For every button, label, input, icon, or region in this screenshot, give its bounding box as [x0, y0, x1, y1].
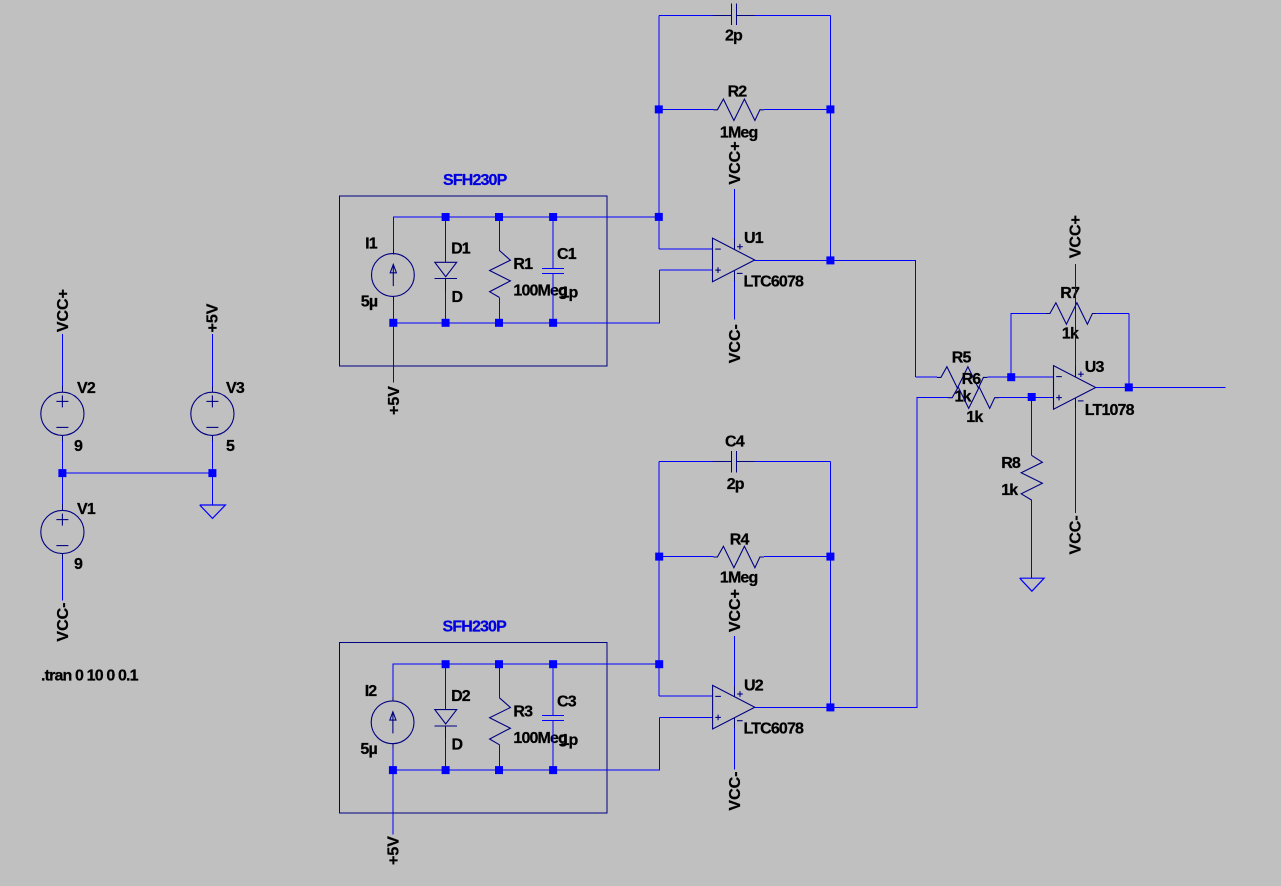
- voltage source V1: [41, 504, 84, 560]
- svg-text:SFH230P: SFH230P: [443, 619, 508, 636]
- svg-text:V1: V1: [77, 501, 96, 518]
- wire U3 output: [1096, 386, 1226, 388]
- wire U2 V+ stub: [733, 636, 735, 686]
- svg-text:+5V: +5V: [386, 386, 403, 415]
- svg-text:LT1078: LT1078: [1085, 402, 1135, 419]
- svg-text:SFH230P: SFH230P: [443, 172, 508, 189]
- svg-text:U2: U2: [744, 677, 764, 694]
- junction R2 right: [826, 105, 834, 113]
- svg-text:V2: V2: [77, 380, 96, 397]
- svg-text:R4: R4: [730, 532, 750, 549]
- op-amp U1 LTC6078: [713, 238, 755, 282]
- junction top rail2 at C3: [549, 660, 557, 668]
- wire U2 plus input: [659, 717, 712, 719]
- svg-text:LTC6078: LTC6078: [744, 273, 805, 290]
- svg-text:VCC+: VCC+: [727, 589, 744, 632]
- wire U1 minus input: [659, 248, 713, 250]
- diode D2: [434, 664, 457, 770]
- svg-text:U3: U3: [1085, 359, 1105, 376]
- junction top rail2 at R3: [495, 660, 503, 668]
- resistor R3: [490, 664, 511, 770]
- svg-text:C1: C1: [557, 246, 577, 263]
- svg-text:VCC-: VCC-: [727, 324, 744, 363]
- graphic box SFH230P 1: [340, 196, 607, 366]
- junction R4 right: [826, 553, 834, 561]
- resistor R6: [917, 387, 1054, 408]
- junction U3 inverting input: [1007, 373, 1015, 381]
- junction R4 left: [655, 553, 663, 561]
- svg-text:R2: R2: [728, 84, 748, 101]
- junction at (62,473): [58, 469, 66, 477]
- svg-text:VCC+: VCC+: [55, 289, 72, 332]
- resistor R5: [916, 367, 1054, 388]
- wire +5V label to V3 top: [211, 334, 213, 387]
- wire U1 V+ stub: [733, 189, 735, 239]
- junction bottom rail2 at R3: [495, 766, 503, 774]
- svg-text:LTC6078: LTC6078: [744, 721, 805, 738]
- resistor R8: [1021, 455, 1042, 578]
- svg-text:5µ: 5µ: [360, 741, 377, 758]
- svg-text:2p: 2p: [725, 28, 743, 45]
- svg-text:R6: R6: [962, 371, 982, 388]
- svg-text:D: D: [452, 736, 463, 753]
- wire U1 output: [755, 260, 916, 377]
- svg-text:1Meg: 1Meg: [720, 570, 758, 587]
- wire U1 plus input: [659, 269, 712, 271]
- svg-text:VCC+: VCC+: [1068, 215, 1085, 258]
- wire I2 bottom: [392, 748, 394, 770]
- svg-text:VCC-: VCC-: [727, 771, 744, 810]
- svg-text:1k: 1k: [966, 409, 983, 426]
- svg-text:VCC-: VCC-: [55, 602, 72, 641]
- svg-text:V3: V3: [226, 380, 245, 397]
- svg-text:+5V: +5V: [386, 836, 403, 865]
- wire bottom rail cell2: [393, 718, 659, 771]
- svg-text:R3: R3: [513, 703, 533, 720]
- voltage source V3: [191, 386, 234, 442]
- svg-text:VCC-: VCC-: [1068, 515, 1085, 554]
- junction top rail2 at D2: [442, 660, 450, 668]
- svg-text:1Meg: 1Meg: [720, 125, 758, 142]
- svg-text:1p: 1p: [561, 285, 579, 302]
- wire left feedback rail U2: [658, 462, 660, 697]
- resistor R1: [490, 217, 511, 323]
- svg-text:R7: R7: [1060, 285, 1080, 302]
- capacitor C1: [542, 217, 564, 323]
- wire right feedback rail U1: [829, 15, 831, 260]
- wire U2 V- stub: [733, 718, 735, 728]
- wire top rail cell1: [393, 217, 659, 250]
- wire R7 feedback left rail: [1011, 313, 1046, 377]
- wire U3 V+ stub: [1074, 264, 1076, 366]
- junction top rail at C1: [549, 213, 557, 221]
- junction bottom rail at C1: [549, 319, 557, 327]
- svg-text:1k: 1k: [1001, 482, 1018, 499]
- svg-text:5µ: 5µ: [361, 294, 378, 311]
- junction U2 output: [826, 703, 834, 711]
- svg-text:I1: I1: [365, 236, 378, 253]
- capacitor C2 feedback: [659, 4, 831, 26]
- wire I1 bottom: [392, 301, 394, 323]
- junction bottom rail at D1: [442, 319, 450, 327]
- svg-text:9: 9: [74, 556, 83, 573]
- svg-text:2p: 2p: [727, 476, 745, 493]
- op-amp U3 LT1078: [1054, 366, 1096, 410]
- svg-text:C4: C4: [725, 434, 745, 451]
- op-amp U2 LTC6078: [713, 685, 755, 729]
- resistor R2: [659, 99, 831, 120]
- resistor R4: [659, 546, 830, 567]
- svg-text:D2: D2: [451, 688, 471, 705]
- junction U1 output: [826, 256, 834, 264]
- wire U2 minus input: [659, 695, 712, 697]
- junction U3 output: [1125, 383, 1133, 391]
- svg-text:1p: 1p: [561, 732, 579, 749]
- svg-text:.tran 0 10 0 0.1: .tran 0 10 0 0.1: [41, 668, 139, 685]
- wire U2 output: [755, 397, 917, 707]
- svg-text:R1: R1: [513, 256, 533, 273]
- wire R7 feedback right rail: [1128, 313, 1130, 387]
- svg-text:D1: D1: [451, 241, 471, 258]
- junction U1 inverting input node: [655, 213, 663, 221]
- junction R2 left: [655, 105, 663, 113]
- junction bottom rail2 at D2: [442, 766, 450, 774]
- svg-text:R8: R8: [1001, 455, 1021, 472]
- svg-text:9: 9: [74, 438, 83, 455]
- svg-text:5: 5: [226, 438, 235, 455]
- junction top rail at D1: [442, 213, 450, 221]
- graphic box SFH230P 2: [340, 643, 607, 814]
- capacitor C4 feedback: [659, 451, 830, 473]
- junction U2 inverting input node: [655, 660, 663, 668]
- junction bottom rail2 at C3: [549, 766, 557, 774]
- svg-text:100Meg: 100Meg: [513, 730, 567, 747]
- junction U3 non-inverting input: [1028, 393, 1036, 401]
- voltage source V2: [41, 386, 84, 442]
- svg-text:D: D: [452, 289, 463, 306]
- wire junction to ground: [211, 473, 213, 505]
- svg-text:R5: R5: [952, 350, 972, 367]
- svg-text:+5V: +5V: [205, 303, 222, 332]
- svg-text:100Meg: 100Meg: [513, 283, 567, 300]
- current source I2: [371, 697, 414, 749]
- wire U1 V- stub: [733, 271, 735, 281]
- svg-text:1k: 1k: [1062, 326, 1079, 343]
- wire bottom rail cell1: [393, 270, 659, 323]
- svg-text:C3: C3: [557, 693, 577, 710]
- ground (under V3): [200, 505, 226, 518]
- junction top rail at R1: [495, 213, 503, 221]
- wire VCC+ label to V2 top: [61, 334, 63, 387]
- wire +5V stub cell1: [392, 323, 394, 383]
- junction bottom rail at R1: [495, 319, 503, 327]
- wire top rail cell2: [393, 664, 659, 697]
- ground (under R8): [1020, 578, 1044, 591]
- current source I1: [372, 250, 415, 302]
- wire R8 top: [1031, 397, 1033, 455]
- svg-text:U1: U1: [744, 230, 764, 247]
- wire +5V stub cell2: [392, 770, 394, 834]
- junction at (212,473): [208, 469, 216, 477]
- diode D1: [434, 217, 457, 323]
- wire left feedback rail U1: [658, 15, 660, 249]
- junction bottom rail at I1: [389, 319, 397, 327]
- svg-text:I2: I2: [365, 683, 378, 700]
- wire V3 bottom to junction: [211, 441, 213, 473]
- wire horizontal V2/V1/V3 node: [62, 472, 212, 474]
- wire U3 V- stub: [1074, 398, 1076, 408]
- junction bottom rail2 at I2: [389, 766, 397, 774]
- wire V1 bottom to VCC- label: [61, 559, 63, 601]
- wire right feedback rail U2: [829, 462, 831, 708]
- svg-text:VCC+: VCC+: [727, 141, 744, 184]
- wire V2 bottom to junction: [61, 441, 63, 473]
- resistor R7: [1046, 303, 1129, 324]
- capacitor C3: [542, 664, 564, 770]
- wire junction to V1 top: [61, 473, 63, 505]
